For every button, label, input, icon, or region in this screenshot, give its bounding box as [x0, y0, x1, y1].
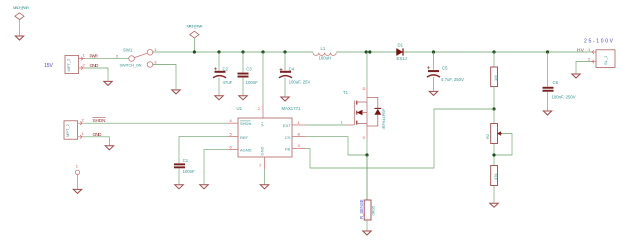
connector X1 pin 1: [79, 57, 85, 61]
svg-text:SW1: SW1: [123, 48, 133, 53]
capacitor C6 plate 1: [543, 87, 554, 89]
svg-text:100nF: 100nF: [246, 80, 259, 85]
IC V+ pin stub: [262, 104, 264, 118]
svg-text:V+: V+: [260, 121, 265, 127]
junction rail/drain: [365, 50, 368, 53]
transistor T1 gate pin: [345, 124, 354, 126]
ground (top-left flag): [15, 36, 23, 40]
wire C2 to ground: [218, 78, 220, 95]
wire rail to C5: [433, 52, 435, 70]
wire source to sense node: [366, 138, 368, 200]
svg-text:100nF: 100nF: [183, 169, 196, 174]
wire net PWR to switch: [85, 58, 129, 60]
transistor T1 gate bar: [353, 101, 355, 126]
capacitor C5 curved plate: [427, 75, 440, 77]
capacitor C6 plate 2: [543, 90, 554, 92]
wire rail to IC V+ pin: [262, 52, 264, 104]
junction rail/C2: [217, 50, 220, 53]
ground (IC GND): [260, 185, 268, 189]
wire diode to output rail: [404, 51, 592, 53]
connector X4 pin 2: [592, 60, 596, 64]
wire AGND to ground: [204, 150, 228, 185]
capacitor C4 plus sign: [280, 68, 283, 71]
svg-text:C6: C6: [553, 80, 559, 85]
op-amp U1 body (MAX1771): [238, 118, 292, 157]
switch SW1 throw 3: [147, 62, 153, 68]
supply flag MACH_PWR (top-left): [15, 13, 24, 20]
svg-text:FB: FB: [285, 147, 290, 152]
trimmer R2 wiper arrow: [498, 132, 502, 135]
svg-text:C4: C4: [289, 66, 295, 71]
capacitor C2 plus sign: [214, 67, 217, 70]
capacitor C4 top plate: [280, 71, 291, 73]
junction rail/flag: [193, 50, 196, 53]
connector X4 body (HV output): [596, 50, 615, 68]
transistor T1 drain connection: [357, 101, 367, 103]
junction source/CS: [365, 153, 368, 156]
switch SW1 throw 1: [147, 50, 153, 56]
diode D1 cathode bar: [402, 48, 403, 55]
IC pin stub CS: [292, 136, 305, 138]
wire C6 to ground: [547, 92, 549, 111]
svg-text:D1: D1: [398, 42, 404, 47]
svg-text:SL_2: SL_2: [603, 55, 608, 65]
transistor T1 source connection: [357, 102, 367, 126]
ground (X1 GND): [104, 81, 112, 85]
svg-text:C1: C1: [183, 158, 189, 163]
ground (pad X3): [73, 189, 81, 193]
wire C5 to ground: [433, 77, 435, 91]
transistor T1 body diode bar: [374, 108, 381, 109]
connector X2 pin 1: [78, 135, 84, 139]
IC pin stub AGND: [228, 149, 238, 151]
svg-text:L1: L1: [321, 46, 326, 51]
wire throw3 to ground: [153, 65, 176, 90]
wire top rail left segment: [153, 51, 313, 53]
IC pin stub EXT: [292, 124, 305, 126]
svg-text:GND: GND: [260, 147, 265, 156]
transistor T1 source pin: [366, 126, 368, 138]
connector X2 pin 2: [78, 121, 84, 125]
transistor T1 drain pin: [366, 88, 368, 102]
resistor R_SENSE: [364, 200, 371, 220]
IC pin stub GND bottom: [264, 157, 266, 169]
wire REF to C1: [179, 137, 228, 163]
capacitor C2 curved plate: [213, 76, 226, 78]
svg-text:15V: 15V: [44, 63, 54, 69]
svg-text:MPT_2: MPT_2: [66, 58, 71, 72]
wire C1 to ground: [178, 168, 180, 184]
svg-text:SHDN: SHDN: [240, 121, 251, 126]
wire FB to divider: [305, 109, 492, 168]
IC pin stub SHDN: [228, 122, 238, 124]
svg-text:AGND: AGND: [240, 148, 252, 153]
inductor L1: [313, 53, 336, 56]
resistor R5: [491, 67, 498, 87]
ground (R3): [490, 203, 498, 207]
svg-text:25-100V: 25-100V: [584, 39, 614, 45]
net label SHDN overbar: [93, 117, 106, 119]
junction rail/C4: [283, 50, 286, 53]
junction rail/V+: [261, 50, 264, 53]
wire rail to C4: [284, 52, 286, 71]
svg-text:C2: C2: [223, 66, 229, 71]
ground (C2): [215, 96, 223, 100]
pin name SHDN overbar: [240, 120, 251, 122]
IC pin stub FB: [292, 147, 305, 149]
svg-text:D: D: [363, 86, 366, 91]
transistor T1 body diode branch: [367, 97, 378, 126]
wire drain: [366, 52, 368, 88]
svg-text:CS: CS: [285, 135, 291, 140]
wire sense node to R_SENSE: [366, 155, 368, 200]
junction trimmer/R3: [492, 153, 495, 156]
svg-text:MPT_2: MPT_2: [65, 123, 70, 137]
wire R5 to FB node: [493, 87, 495, 109]
wire wiper loop: [494, 134, 512, 156]
junction rail/diode anode: [368, 50, 371, 53]
wire inductor to drain junction: [336, 51, 396, 53]
svg-text:MAX1771: MAX1771: [282, 106, 301, 111]
ground (C1): [175, 185, 183, 189]
junction FB node: [492, 107, 495, 110]
svg-text:R_SENSE: R_SENSE: [359, 199, 364, 219]
ground (C5): [429, 91, 437, 95]
wire rail to C2: [218, 52, 220, 71]
ground (R_SENSE): [363, 231, 371, 235]
junction rail/C3: [241, 50, 244, 53]
wire rail to R5: [493, 52, 495, 67]
svg-text:MACH_PWR: MACH_PWR: [187, 24, 203, 29]
junction rail/R5: [492, 50, 495, 53]
svg-text:EXT: EXT: [283, 123, 291, 128]
ground (C6): [543, 111, 551, 115]
wire flag to rail junction: [193, 38, 195, 52]
wire IC GND to ground: [264, 169, 266, 184]
wire FB node to trimmer: [493, 109, 495, 124]
ground (switch throw 3): [172, 90, 180, 94]
svg-text:100uH: 100uH: [319, 56, 332, 61]
junction rail/C5: [432, 50, 435, 53]
junction rail/C6: [546, 50, 549, 53]
resistor R3: [491, 166, 498, 186]
supply flag MACH_PWR (rail): [190, 31, 199, 38]
wire CS to source node: [305, 137, 366, 155]
ground (C3): [239, 96, 247, 100]
wire net GND to ground: [85, 68, 108, 81]
connector X1 body (power input): [65, 56, 79, 74]
svg-text:IRF644PBF: IRF644PBF: [381, 108, 386, 129]
capacitor C3 plate 2: [238, 76, 249, 78]
capacitor C5 plus sign: [427, 66, 430, 69]
capacitor C2 top plate: [215, 71, 226, 73]
pad X3 (single pin): [75, 170, 79, 174]
capacitor C5 top plate: [428, 70, 439, 72]
wire R3 to ground: [493, 186, 495, 203]
wire rail to C6: [547, 52, 549, 87]
svg-text:R2: R2: [485, 133, 490, 139]
svg-text:REF: REF: [240, 135, 249, 140]
svg-text:SWITCH_ON: SWITCH_ON: [120, 63, 142, 68]
svg-text:4.7uF, 250V: 4.7uF, 250V: [441, 77, 464, 82]
capacitor C1 plate 2: [174, 166, 185, 168]
svg-text:ES1J: ES1J: [397, 56, 407, 61]
transistor T1 channel segments: [356, 101, 358, 125]
switch SW1 lever: [134, 53, 147, 57]
wire pin2 to ground: [576, 62, 592, 74]
capacitor C1 plate 1: [174, 163, 185, 165]
connector X2 body (shutdown input): [64, 121, 78, 139]
transistor T1 bulk connection: [362, 112, 367, 114]
wire flag to ground: [19, 20, 21, 36]
connector X1 pin 2: [79, 66, 85, 70]
svg-text:100uF, 25V: 100uF, 25V: [289, 79, 311, 84]
wire net GND to ground: [84, 137, 109, 145]
transistor T1 body diode: [374, 109, 381, 115]
switch SW1 common pole: [129, 56, 135, 62]
wire C3 to ground: [242, 78, 244, 96]
svg-text:MACH_PWR: MACH_PWR: [13, 5, 29, 10]
svg-text:U1: U1: [237, 106, 243, 111]
svg-text:0R05: 0R05: [371, 205, 376, 215]
svg-text:47k: 47k: [493, 174, 498, 180]
svg-text:HV: HV: [577, 47, 585, 53]
trimmer R2 body: [491, 124, 498, 144]
wire trimmer bottom: [493, 144, 495, 166]
capacitor C3 plate 1: [238, 73, 249, 75]
wire C4 to ground: [284, 78, 286, 97]
svg-text:1M: 1M: [493, 75, 498, 81]
connector X4 pin 1: [592, 50, 596, 54]
ground (C4): [281, 97, 289, 101]
wire R_SENSE to ground: [366, 220, 368, 230]
wire pad to ground: [77, 175, 79, 189]
ground (AGND): [200, 185, 208, 189]
svg-text:100nF, 250V: 100nF, 250V: [552, 95, 576, 100]
wire net SHDN to IC: [84, 122, 228, 124]
svg-text:47uF: 47uF: [223, 80, 233, 85]
svg-text:T1: T1: [343, 90, 349, 95]
svg-text:C5: C5: [442, 65, 448, 70]
wire EXT to gate: [305, 124, 345, 126]
svg-text:C3: C3: [246, 66, 252, 71]
ground (X4 pin2): [572, 74, 580, 78]
ground (X2 GND): [105, 146, 113, 150]
capacitor C4 curved plate: [279, 76, 292, 78]
transistor T1 bulk arrow: [357, 110, 363, 115]
diode D1: [397, 48, 403, 55]
IC pin stub REF: [228, 136, 238, 138]
wire rail to C3: [242, 52, 244, 73]
